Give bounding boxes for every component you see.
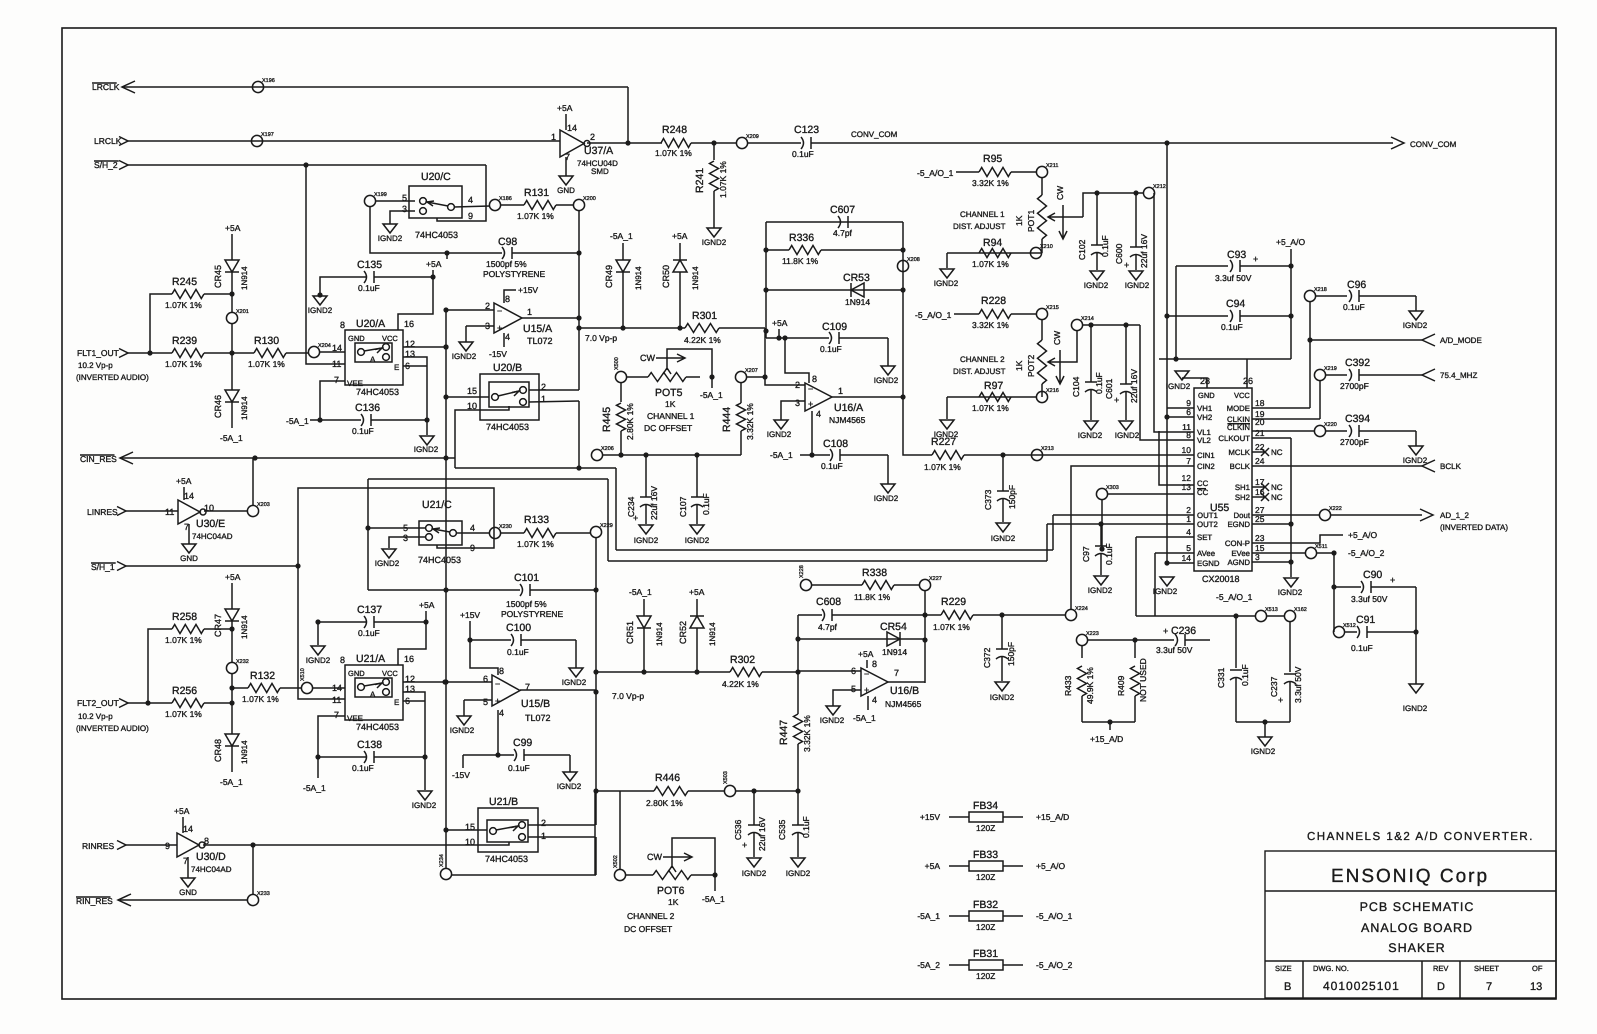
svg-text:+15_A/D: +15_A/D: [1036, 812, 1069, 822]
junction: [795, 788, 800, 793]
pot wiper POT2: [1048, 330, 1077, 366]
resistor R433: [1078, 666, 1087, 696]
arrow RIN_RES: [118, 894, 131, 906]
svg-text:74HC4053: 74HC4053: [418, 555, 461, 565]
svg-text:DC OFFSET: DC OFFSET: [624, 924, 672, 934]
junction: [422, 754, 427, 759]
arrow A/D_MODE: [1422, 334, 1435, 346]
junction: [430, 274, 435, 279]
svg-text:5: 5: [483, 697, 488, 707]
junction: [900, 247, 905, 252]
svg-text:POT6: POT6: [657, 885, 685, 897]
svg-text:X207: X207: [745, 368, 758, 374]
junction: [1233, 613, 1238, 618]
svg-text:DWG. NO.: DWG. NO.: [1313, 964, 1349, 973]
wire: [832, 396, 903, 398]
svg-text:SH2: SH2: [1235, 493, 1250, 502]
svg-text:2.80K 1%: 2.80K 1%: [625, 403, 635, 440]
wire: [182, 817, 184, 833]
svg-text:11.8K 1%: 11.8K 1%: [782, 256, 819, 266]
svg-text:SET: SET: [1197, 533, 1212, 542]
ground IGND2 U55egnd: [1160, 577, 1174, 586]
wire: [833, 690, 861, 706]
svg-text:+15V: +15V: [920, 812, 940, 822]
capacitor C607: [838, 216, 841, 228]
svg-text:IGND2: IGND2: [1088, 586, 1113, 595]
junction: [229, 626, 234, 631]
inverter U30/D: [177, 833, 199, 857]
svg-text:-5A_1: -5A_1: [770, 450, 793, 460]
ground IGND2 C108: [881, 484, 895, 493]
node X204: [308, 346, 319, 357]
node X212: [1143, 187, 1154, 198]
wire: [785, 338, 809, 383]
wire: [497, 710, 499, 755]
svg-text:3.32K 1%: 3.32K 1%: [972, 320, 1009, 330]
svg-text:X500: X500: [614, 357, 620, 370]
capacitor C123: [801, 137, 804, 149]
svg-text:X210: X210: [1040, 244, 1053, 250]
svg-text:8: 8: [505, 294, 510, 304]
junction: [593, 788, 598, 793]
wire: [231, 234, 233, 260]
svg-text:3: 3: [403, 533, 408, 543]
junction: [782, 335, 787, 340]
wire: [1290, 438, 1292, 577]
junction: [1288, 313, 1293, 318]
wire: [1107, 493, 1194, 495]
svg-text:U21/B: U21/B: [489, 796, 518, 808]
junction: [1413, 629, 1418, 634]
svg-text:1K: 1K: [665, 399, 676, 409]
svg-text:0.1uF: 0.1uF: [821, 461, 843, 471]
node X207: [735, 371, 746, 382]
ground IGND2 C102: [1090, 271, 1104, 280]
node X197: [251, 135, 262, 146]
svg-text:IGND2: IGND2: [412, 801, 437, 810]
wire: [403, 692, 425, 790]
junction: [576, 250, 581, 255]
wire: [620, 383, 622, 402]
ground IGND2 R94: [940, 269, 954, 278]
svg-text:IGND2: IGND2: [874, 376, 899, 385]
resistor R95: [979, 168, 1011, 177]
capacitor C97: [1095, 545, 1107, 547]
resistor R239: [172, 349, 204, 358]
svg-text:10.2 Vp-p: 10.2 Vp-p: [78, 361, 113, 370]
wire: [1082, 324, 1140, 326]
capacitor C137: [364, 616, 367, 628]
svg-text:-5_A/O_1: -5_A/O_1: [915, 310, 952, 320]
diode CR52: [690, 616, 704, 628]
wire: [902, 222, 904, 450]
wire: [643, 599, 645, 616]
svg-text:3.3uf 50V: 3.3uf 50V: [1215, 273, 1252, 283]
svg-text:X303: X303: [1106, 485, 1119, 491]
wire: [565, 114, 567, 130]
junction: [677, 325, 682, 330]
svg-text:CR49: CR49: [604, 265, 614, 288]
svg-text:+15V: +15V: [518, 285, 538, 295]
svg-text:IGND2: IGND2: [1115, 431, 1140, 440]
svg-text:0.1uF: 0.1uF: [801, 816, 811, 838]
svg-text:X186: X186: [499, 196, 512, 202]
svg-text:11: 11: [332, 359, 341, 369]
resistor R445: [617, 403, 626, 431]
svg-text:3.32K 1%: 3.32K 1%: [972, 178, 1009, 188]
svg-text:R248: R248: [662, 124, 687, 136]
svg-text:7: 7: [894, 668, 899, 678]
svg-text:+5A: +5A: [225, 223, 241, 233]
wire: [1415, 296, 1417, 311]
IC U55 box: [1194, 388, 1252, 571]
ferrite bead FB31: [969, 960, 1003, 970]
svg-text:+5_A/O: +5_A/O: [1036, 861, 1065, 871]
junction: [1164, 414, 1169, 419]
wire: [204, 510, 248, 512]
junction: [423, 619, 428, 624]
wire: [1235, 616, 1237, 668]
svg-text:C136: C136: [355, 402, 380, 414]
svg-text:X233: X233: [257, 891, 270, 897]
ground IGND2 C96: [1409, 311, 1423, 320]
svg-text:0.1uF: 0.1uF: [1240, 664, 1250, 686]
wire: [1101, 499, 1103, 549]
svg-text:R241: R241: [694, 168, 706, 193]
wire: [367, 479, 369, 590]
svg-text:FB32: FB32: [973, 899, 998, 911]
svg-text:+: +: [1278, 695, 1283, 705]
svg-text:SH1: SH1: [1235, 483, 1250, 492]
svg-text:4.22K 1%: 4.22K 1%: [684, 335, 721, 345]
svg-text:1: 1: [838, 386, 843, 396]
junction: [467, 637, 472, 642]
svg-text:+5A: +5A: [557, 103, 573, 113]
svg-text:7.0 Vp-p: 7.0 Vp-p: [612, 691, 644, 701]
svg-text:NJM4565: NJM4565: [829, 415, 866, 425]
svg-text:POLYSTYRENE: POLYSTYRENE: [483, 269, 546, 279]
wire: [765, 222, 767, 338]
wire: [1087, 639, 1174, 641]
wire: [389, 537, 426, 548]
svg-text:PCB SCHEMATIC: PCB SCHEMATIC: [1360, 900, 1475, 914]
svg-text:0.1uF: 0.1uF: [1351, 643, 1373, 653]
svg-text:R446: R446: [655, 772, 680, 784]
wire: [1134, 640, 1136, 658]
svg-text:74HC4053: 74HC4053: [485, 854, 528, 864]
wire: [1334, 586, 1361, 588]
svg-text:C138: C138: [357, 739, 382, 751]
svg-text:150pF: 150pF: [1007, 485, 1017, 509]
svg-text:X218: X218: [1314, 287, 1327, 293]
junction: [1164, 140, 1169, 145]
wire: [579, 327, 684, 329]
svg-text:4.7pf: 4.7pf: [818, 622, 838, 632]
wire: [1316, 552, 1334, 554]
wire: [231, 746, 233, 772]
svg-text:IGND2: IGND2: [557, 782, 582, 791]
svg-text:1.07K 1%: 1.07K 1%: [165, 709, 202, 719]
svg-text:C90: C90: [1363, 569, 1382, 581]
node X234: [440, 868, 451, 879]
svg-text:C607: C607: [830, 204, 855, 216]
svg-text:POT5: POT5: [655, 387, 683, 399]
junction: [576, 325, 581, 330]
svg-text:CR48: CR48: [213, 739, 223, 762]
wire: [446, 829, 487, 831]
svg-text:+: +: [497, 323, 502, 333]
svg-text:1: 1: [1186, 514, 1191, 524]
wire: [1252, 514, 1319, 516]
svg-text:X214: X214: [1081, 316, 1094, 322]
svg-text:CR46: CR46: [213, 395, 223, 418]
svg-text:+5A: +5A: [176, 476, 192, 486]
svg-text:X209: X209: [746, 134, 759, 140]
svg-text:R245: R245: [172, 276, 197, 288]
junction: [1132, 637, 1137, 642]
node X201: [226, 312, 237, 323]
junction: [1173, 356, 1178, 361]
diode CR51: [637, 616, 651, 628]
svg-text:X510: X510: [300, 668, 306, 681]
arrow LINRES: [117, 507, 126, 516]
capacitor C101: [520, 584, 523, 596]
svg-text:VCC: VCC: [1234, 391, 1250, 400]
svg-text:14: 14: [183, 824, 193, 834]
svg-text:GND: GND: [348, 669, 365, 678]
svg-text:X204: X204: [318, 343, 331, 349]
svg-text:1: 1: [541, 394, 546, 404]
wire: [1176, 265, 1228, 267]
svg-text:R133: R133: [524, 514, 549, 526]
junction: [922, 612, 927, 617]
svg-text:0.1uF: 0.1uF: [1104, 543, 1114, 565]
svg-text:0.1uF: 0.1uF: [1221, 322, 1243, 332]
svg-text:IGND2: IGND2: [414, 445, 439, 454]
ferrite bead FB33: [969, 861, 1003, 871]
wire: [1252, 535, 1343, 543]
svg-text:1N914: 1N914: [240, 266, 249, 290]
junction: [1331, 550, 1336, 555]
wire: [466, 325, 494, 327]
svg-text:-5A_1: -5A_1: [917, 911, 940, 921]
svg-text:7: 7: [334, 375, 339, 385]
wire: [643, 628, 645, 672]
wire: [619, 791, 621, 869]
junction: [751, 788, 756, 793]
wire: [1167, 315, 1228, 317]
svg-text:TL072: TL072: [527, 336, 553, 346]
svg-text:C135: C135: [357, 259, 382, 271]
wire: [1252, 465, 1422, 467]
svg-text:C96: C96: [1347, 279, 1366, 291]
svg-text:C102: C102: [1077, 239, 1087, 260]
junction: [593, 587, 598, 592]
svg-text:MODE: MODE: [1227, 404, 1250, 413]
junction: [252, 455, 257, 460]
svg-text:X219: X219: [1324, 366, 1337, 372]
svg-text:1K: 1K: [1014, 360, 1024, 371]
wire: [128, 140, 560, 142]
resistor R97: [979, 393, 1011, 402]
svg-text:C394: C394: [1345, 413, 1370, 425]
svg-text:AVee: AVee: [1197, 549, 1215, 558]
no-connect 16: [1252, 493, 1269, 501]
svg-text:1: 1: [551, 132, 556, 142]
svg-text:2.80K 1%: 2.80K 1%: [646, 798, 683, 808]
svg-text:(INVERTED AUDIO): (INVERTED AUDIO): [76, 724, 149, 733]
capacitor C331: [1230, 669, 1242, 671]
svg-text:IGND2: IGND2: [1125, 281, 1150, 290]
resistor R338: [862, 581, 894, 590]
svg-text:49.9K 1%: 49.9K 1%: [1085, 667, 1095, 704]
pot wiper POT5: [663, 349, 712, 377]
wire: [451, 874, 596, 876]
svg-text:CHANNELS 1&2 A/D CONVERTER.: CHANNELS 1&2 A/D CONVERTER.: [1307, 831, 1534, 843]
wire: [1041, 177, 1043, 195]
svg-text:IGND2: IGND2: [874, 494, 899, 503]
svg-text:R444: R444: [721, 407, 733, 432]
wire: [231, 323, 233, 353]
svg-text:X232: X232: [236, 659, 249, 665]
junction: [593, 689, 598, 694]
svg-text:9: 9: [468, 211, 473, 221]
arrow LRCLK in: [119, 137, 128, 146]
junction: [229, 350, 234, 355]
wire: [1166, 143, 1168, 563]
arrow RINRES: [117, 841, 126, 850]
resistor R229: [941, 611, 973, 620]
wire: [1252, 523, 1291, 525]
svg-text:1.07K 1%: 1.07K 1%: [517, 211, 554, 221]
junction: [1000, 452, 1005, 457]
svg-text:R97: R97: [984, 380, 1003, 392]
svg-text:1.07K 1%: 1.07K 1%: [248, 359, 285, 369]
svg-text:+15V: +15V: [460, 610, 480, 620]
svg-text:X162: X162: [1294, 607, 1307, 613]
svg-text:IGND2: IGND2: [990, 693, 1015, 702]
wire: [463, 754, 514, 756]
wire: [578, 210, 580, 390]
wire: [1167, 416, 1194, 418]
svg-text:POLYSTYRENE: POLYSTYRENE: [501, 609, 564, 619]
wire: [128, 164, 486, 166]
capacitor C138: [364, 751, 367, 763]
ground IGND2 U55agnd: [1284, 578, 1298, 587]
svg-text:X212: X212: [1153, 184, 1166, 190]
svg-text:-5_A/O_1: -5_A/O_1: [917, 168, 954, 178]
svg-text:(INVERTED DATA): (INVERTED DATA): [1440, 523, 1508, 532]
wire: [1344, 631, 1357, 633]
wire: [1167, 562, 1194, 564]
arrow CONV_COM: [1391, 137, 1404, 149]
svg-text:5: 5: [1186, 543, 1191, 553]
svg-text:8: 8: [812, 374, 817, 384]
node X229: [590, 526, 601, 537]
wire: [578, 401, 580, 468]
svg-text:C98: C98: [498, 236, 517, 248]
svg-text:U20/C: U20/C: [421, 171, 451, 183]
svg-text:-5A_1: -5A_1: [303, 783, 326, 793]
wire: [126, 844, 177, 846]
junction: [1133, 190, 1138, 195]
ground IGND2 U15B: [457, 716, 471, 725]
pot cw arrow POT1: [1059, 205, 1067, 239]
svg-text:FB31: FB31: [973, 948, 998, 960]
wire: [1154, 193, 1194, 432]
capacitor C98: [502, 247, 505, 259]
capacitor C93: [1230, 260, 1233, 272]
svg-text:3.3uf 50V: 3.3uf 50V: [1156, 645, 1193, 655]
svg-text:1500pf 5%: 1500pf 5%: [486, 259, 527, 269]
wire: [1052, 515, 1054, 550]
capacitor C237: [1284, 673, 1296, 675]
junction: [576, 315, 581, 320]
junction: [694, 669, 699, 674]
svg-text:4.7pf: 4.7pf: [833, 228, 853, 238]
node X500: [615, 371, 626, 382]
svg-text:SMD: SMD: [591, 167, 609, 176]
junction: [795, 669, 800, 674]
junction: [1123, 322, 1128, 327]
svg-text:U37/A: U37/A: [584, 145, 613, 157]
node X230: [489, 527, 500, 538]
node X222: [1319, 509, 1330, 520]
svg-text:X200: X200: [583, 196, 596, 202]
wire: [764, 328, 766, 377]
svg-text:4: 4: [816, 409, 821, 419]
ground IGND2 C536: [747, 858, 761, 867]
capacitor C104: [1085, 381, 1097, 383]
svg-text:A: A: [370, 690, 376, 699]
wire: [747, 142, 801, 144]
svg-text:X199: X199: [374, 192, 387, 198]
wire: [1315, 295, 1347, 297]
junction: [229, 685, 234, 690]
wire: [1053, 514, 1194, 516]
wire: [122, 86, 628, 88]
svg-text:C93: C93: [1227, 249, 1246, 261]
no-connect 17: [1252, 483, 1269, 491]
svg-text:U30/D: U30/D: [196, 851, 226, 863]
wire: [187, 857, 189, 878]
junction: [443, 587, 448, 592]
svg-text:X223: X223: [1086, 631, 1099, 637]
wire: [455, 406, 509, 468]
wire: [298, 566, 345, 699]
wire: [1154, 553, 1156, 616]
svg-text:4: 4: [470, 523, 475, 533]
wire: [947, 252, 1042, 254]
resistor R132: [248, 684, 280, 693]
wire: [765, 377, 805, 385]
resistor R446: [654, 787, 688, 796]
svg-text:22uf 16V: 22uf 16V: [1129, 369, 1139, 403]
wire: [446, 396, 489, 398]
resistor R301: [685, 324, 719, 333]
potentiometer POT2: [1038, 340, 1047, 384]
wire: [464, 699, 492, 701]
arrow BCLK: [1422, 460, 1435, 472]
mux U21/B box: [478, 808, 538, 852]
wire: [403, 365, 427, 367]
svg-text:IGND2: IGND2: [742, 869, 767, 878]
svg-text:SHAKER: SHAKER: [1388, 941, 1445, 955]
wire: [470, 639, 511, 641]
svg-text:CR53: CR53: [843, 272, 870, 284]
ground IGND2 C234: [639, 525, 653, 534]
wire: [627, 87, 629, 143]
